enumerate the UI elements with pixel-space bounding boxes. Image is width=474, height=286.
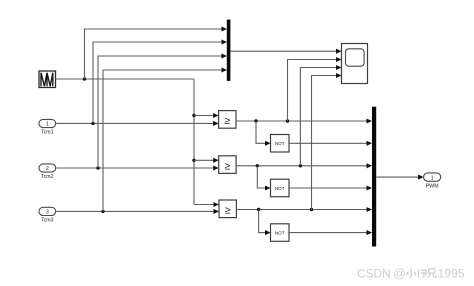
- wire GE1 output to mux M2: [236, 120, 367, 122]
- wire carrier output horizontal: [56, 78, 195, 80]
- svg-text:1995: 1995: [438, 267, 465, 281]
- svg-text:≥: ≥: [224, 115, 230, 127]
- wire to GE1 input1: [194, 115, 214, 117]
- wire NOT3 output to mux M2: [289, 232, 367, 234]
- node GE3 out branch to NOT3: [257, 208, 260, 211]
- wire to GE3 input1: [194, 204, 214, 206]
- relational operator GE1: [219, 111, 236, 129]
- wire mux M1 output to scope: [230, 50, 336, 52]
- arrow into scope input1: [336, 49, 342, 54]
- arrow into mux M1 input4: [222, 67, 228, 72]
- arrow into mux M2 input2: [367, 141, 373, 146]
- node carrier branch to mux: [83, 77, 86, 80]
- arrow into mux M2 input1: [367, 118, 373, 123]
- arrow into mux M2 input4: [367, 185, 373, 190]
- svg-text:1: 1: [431, 176, 434, 182]
- relational operator GE3: [219, 200, 236, 218]
- svg-text:Tcm3: Tcm3: [41, 218, 54, 224]
- node GE1 out branch to scope: [286, 119, 289, 122]
- logical operator NOT2: [271, 179, 290, 197]
- node GE3 out branch to scope: [310, 208, 313, 211]
- svg-text:1: 1: [46, 122, 49, 128]
- svg-text:PWM: PWM: [426, 183, 439, 189]
- arrow into mux M2 input3: [367, 163, 373, 168]
- input port Tcm1: [39, 119, 56, 135]
- wire NOT1 output to mux M2: [289, 142, 367, 144]
- wire Tcm2 to comparator GE2: [56, 167, 214, 169]
- arrow into mux M1 input2: [222, 39, 228, 44]
- wire branch up to scope input3: [300, 68, 336, 166]
- node GE2 out branch to NOT2: [256, 164, 259, 167]
- logical operator NOT3: [271, 224, 290, 242]
- svg-text:≥: ≥: [225, 205, 231, 217]
- svg-text:NOT: NOT: [275, 141, 285, 146]
- arrow into GE2 input1: [213, 158, 219, 163]
- wire carrier vertical down to comparators: [193, 79, 195, 205]
- arrow into mux M2 input5: [367, 207, 373, 212]
- svg-text:CSDN @: CSDN @: [357, 267, 406, 281]
- watermark: [357, 267, 465, 281]
- wire NOT2 output to mux M2: [289, 187, 367, 189]
- arrow into scope input2: [336, 57, 342, 62]
- svg-text:Tcm1: Tcm1: [41, 130, 54, 136]
- logical operator NOT1: [271, 135, 290, 153]
- node Tcm2 branch: [96, 166, 99, 169]
- arrow into GE1 input2: [213, 121, 219, 126]
- arrow into NOT1: [265, 141, 271, 146]
- wire GE2 output to mux M2: [236, 165, 367, 167]
- arrow into scope input3: [336, 65, 342, 70]
- node carrier to GE2 input1: [192, 159, 195, 162]
- wire Tcm1 to comparator GE1: [56, 122, 214, 124]
- arrow into GE3 input2: [214, 209, 220, 214]
- input port Tcm2: [39, 164, 56, 180]
- svg-text:≥: ≥: [225, 160, 231, 172]
- wire branch up to scope input2: [288, 60, 337, 122]
- wire Tcm3 to comparator GE3: [56, 210, 214, 212]
- mux M2: [372, 107, 376, 247]
- output port PWM: [424, 173, 441, 189]
- node GE1 out branch to NOT1: [254, 119, 257, 122]
- wire to GE2 input1: [194, 159, 214, 161]
- svg-text:2: 2: [46, 166, 49, 172]
- input port Tcm3: [39, 207, 56, 223]
- wire GE3 output to mux M2: [236, 209, 367, 211]
- arrow into NOT2: [265, 185, 271, 190]
- arrow into mux M1 input1: [222, 26, 228, 31]
- svg-text:NOT: NOT: [275, 186, 285, 191]
- wire Tcm3 up-branch to mux: [103, 70, 222, 211]
- svg-text:Tcm2: Tcm2: [41, 174, 54, 180]
- arrow into mux M1 input3: [222, 53, 228, 58]
- repeating sequence block (sawtooth carrier): [39, 71, 56, 88]
- mux M1: [227, 20, 231, 81]
- node carrier to GE1 input1: [192, 114, 195, 117]
- wire mux M2 output to PWM port: [376, 176, 418, 178]
- wire Tcm1 up-branch to mux: [93, 42, 222, 123]
- arrow into PWM port: [418, 175, 424, 180]
- arrow into NOT3: [265, 230, 271, 235]
- node Tcm3 branch: [101, 210, 104, 213]
- wire branch down to NOT2: [257, 166, 265, 188]
- node Tcm1 branch: [91, 122, 94, 125]
- scope U1: [342, 44, 368, 84]
- arrow into GE3 input1: [214, 202, 220, 207]
- wire Tcm2 up-branch to mux: [98, 56, 222, 168]
- arrow into GE1 input1: [213, 113, 219, 118]
- svg-text:3: 3: [46, 210, 49, 216]
- wire branch down to NOT1: [256, 121, 266, 143]
- relational operator GE2: [219, 156, 236, 174]
- wire branch down to NOT3: [259, 210, 266, 233]
- arrow into mux M2 input6: [367, 230, 373, 235]
- node GE2 out branch to scope: [299, 164, 302, 167]
- arrow into GE2 input2: [213, 165, 219, 170]
- wire carrier up-branch: [85, 29, 223, 79]
- wire branch up to scope input4: [312, 76, 337, 210]
- svg-text:NOT: NOT: [275, 231, 285, 236]
- arrow into scope input4: [336, 73, 342, 78]
